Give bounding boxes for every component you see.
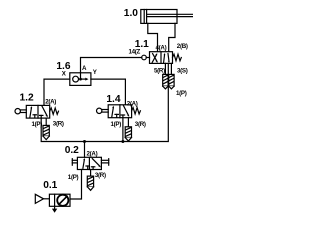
svg-text:1(P): 1(P) [68,174,79,181]
valve 0.2 left box arrow and block [83,158,90,169]
label A [82,65,87,72]
label 2(A) of 1.4 [127,100,138,107]
label 1.2 [20,93,34,104]
label 1(P) of 1.4 [111,121,122,128]
label 4(A) [156,45,167,52]
wire valve 0.2 port 1(P) to air service unit [70,170,82,200]
svg-text:2(A): 2(A) [127,100,138,107]
valve 1.4 right box arrow and block [121,106,129,118]
valve 0.2 3/2-way body [77,157,101,169]
valve 0.2 right box arrow and block [91,159,101,170]
valve 1.2 push button [15,109,26,114]
drain arrow of service unit [52,206,57,213]
label 0.1 [43,180,57,191]
label 3(S) [177,67,188,74]
valve 1.1 right box arrows [163,53,169,63]
valve 1.2 3/2-way body [26,105,49,118]
svg-text:1(P): 1(P) [176,90,187,97]
wire valve 1.1 port 1(P) to supply line [41,63,168,141]
label 1.4 [106,94,120,105]
valve 0.2 right detent actuator [101,159,108,166]
svg-text:0.1: 0.1 [43,180,57,191]
junction dot supply at 1.4 [121,140,124,143]
valve 1.4 left box arrow and block [112,106,119,118]
label 1.0 [124,8,138,19]
valve U1.1 5/2-way body [150,52,173,64]
label 2(B) [177,43,188,50]
silencer on valve 0.2 port 3(R) [87,170,93,191]
valve 1.1 left box arrows [152,53,158,63]
silencer on valve 1.4 port 3(R) [125,118,131,141]
silencer on valve 1.1 port 5(R) [163,63,168,89]
svg-text:4(A): 4(A) [156,45,167,52]
valve 1.2 return spring [50,108,59,114]
valve 1.2 left box arrow and block [30,106,37,118]
label 3(R) of 0.2 [95,172,106,179]
svg-text:1(P): 1(P) [32,121,43,128]
label 14(Z) [129,49,141,56]
svg-text:2(A): 2(A) [87,150,98,157]
cylinder 1.0 [141,10,193,24]
valve 1.2 right box arrow and block [40,106,49,118]
wire shuttle valve A port to pilot 14(Z) of valve 1.1 [81,58,142,73]
wire valve 1.4 port 2(A) to shuttle Y [91,79,126,105]
svg-text:2(B): 2(B) [177,43,188,50]
svg-text:0.2: 0.2 [65,145,79,156]
junction dot supply at 0.2 [83,140,86,143]
valve 1.4 push button [97,108,109,113]
silencer on valve 1.1 port 3(S) [169,63,174,89]
label 1.6 [56,61,70,72]
label 1(P) of 0.2 [68,174,79,181]
label 1(P) of 1.2 [32,121,43,128]
label 5(R) [154,68,165,75]
svg-text:1.4: 1.4 [106,94,120,105]
valve 1.1 pilot port 14(Z) circle [142,55,150,60]
label Y [93,69,98,76]
wire cylinder right port to valve 1.1 port 2(B) [169,23,175,51]
svg-text:3(R): 3(R) [95,172,106,179]
air service unit 0.1 [49,194,70,206]
wire valve 1.2 port 2(A) to shuttle X [44,79,70,105]
svg-text:3(R): 3(R) [135,121,146,128]
wire source to service unit [44,198,50,200]
label 2(A) of 0.2 [87,150,98,157]
svg-text:14(Z: 14(Z [129,49,141,56]
svg-text:1.2: 1.2 [20,93,34,104]
svg-text:2(A): 2(A) [45,99,56,106]
label 3(R) of 1.2 [53,121,64,128]
valve 1.1 return spring [173,54,182,61]
label X [62,71,67,78]
wire cylinder left port to valve 1.1 port 4(A) [148,23,158,51]
shuttle valve 1.6 [70,73,91,86]
valve 1.4 3/2-way body [108,105,131,118]
valve 0.2 left manual actuator [72,159,77,166]
svg-text:1(P): 1(P) [111,121,122,128]
silencer on valve 1.2 port 3(R) [43,118,49,140]
valve 1.4 return spring [132,108,141,114]
svg-text:5(R): 5(R) [154,68,165,75]
wire valve 0.2 port 2(A) to supply line [84,142,86,158]
label 1(P) of 1.1 [176,90,187,97]
svg-text:3(S): 3(S) [177,67,188,74]
label 3(R) of 1.4 [135,121,146,128]
svg-text:3(R): 3(R) [53,121,64,128]
label 0.2 [65,145,79,156]
label 1.1 [135,39,149,50]
svg-text:1.0: 1.0 [124,8,138,19]
wire valve 1.4 port 1(P) to supply line [122,118,124,142]
label 2(A) of 1.2 [45,99,56,106]
compressed air source triangle [35,194,43,203]
